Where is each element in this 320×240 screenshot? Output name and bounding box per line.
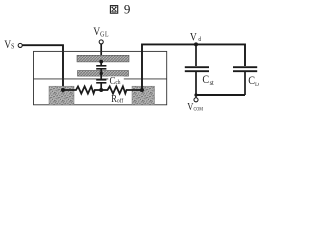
drain metal bar (hatched): [78, 71, 129, 77]
terminal VCOM circle: [194, 98, 198, 102]
wire VGL down to gate: [100, 44, 102, 65]
wire Clc to bottom rail: [244, 72, 246, 95]
wire Vd down to Cst: [195, 44, 197, 66]
wire Cst to bottom rail: [195, 72, 197, 95]
TFT cross-section box: [34, 51, 167, 104]
svg-text:9: 9: [124, 2, 130, 17]
wire VS to source contact: [22, 45, 63, 90]
terminal VS circle: [18, 43, 22, 47]
drain contact (stippled): [132, 86, 155, 105]
bottom rail wire: [196, 94, 245, 96]
terminal VGL circle: [99, 40, 103, 44]
node dot source: [61, 88, 65, 92]
svg-text:VS: VS: [4, 39, 15, 51]
capacitor Clc plates: [233, 67, 257, 71]
capacitor C1 gate-drain plates: [96, 66, 106, 69]
wire to VCOM terminal: [195, 95, 197, 98]
gate layer bar (hatched): [77, 55, 129, 62]
wire C1 to Cch: [100, 70, 102, 80]
junction dot on gate bar: [99, 60, 103, 64]
wire Cch to channel: [100, 84, 102, 91]
node dot VCOM: [194, 93, 197, 96]
svg-text:Vd: Vd: [190, 32, 201, 44]
capacitor Cch plates: [96, 80, 106, 83]
node dot channel mid: [99, 88, 103, 92]
node dot drain: [140, 88, 144, 92]
source contact (stippled): [49, 86, 74, 105]
svg-text:VGL: VGL: [93, 26, 108, 38]
insulator boundary line: [34, 78, 167, 80]
node Vd dot: [194, 42, 198, 46]
svg-text:Cst: Cst: [202, 73, 214, 87]
svg-text:Roff: Roff: [111, 95, 124, 106]
junction dot on drain bar: [100, 72, 103, 75]
label Cch: [108, 76, 124, 84]
capacitor Cst plates: [185, 67, 209, 71]
svg-text:CLC: CLC: [248, 74, 259, 88]
wire drain contact up and to Vd rail: [142, 44, 245, 90]
svg-text:VCOM: VCOM: [187, 103, 203, 114]
figure title: 図 9: [110, 2, 130, 17]
channel wire with resistors Roff: [63, 86, 142, 93]
